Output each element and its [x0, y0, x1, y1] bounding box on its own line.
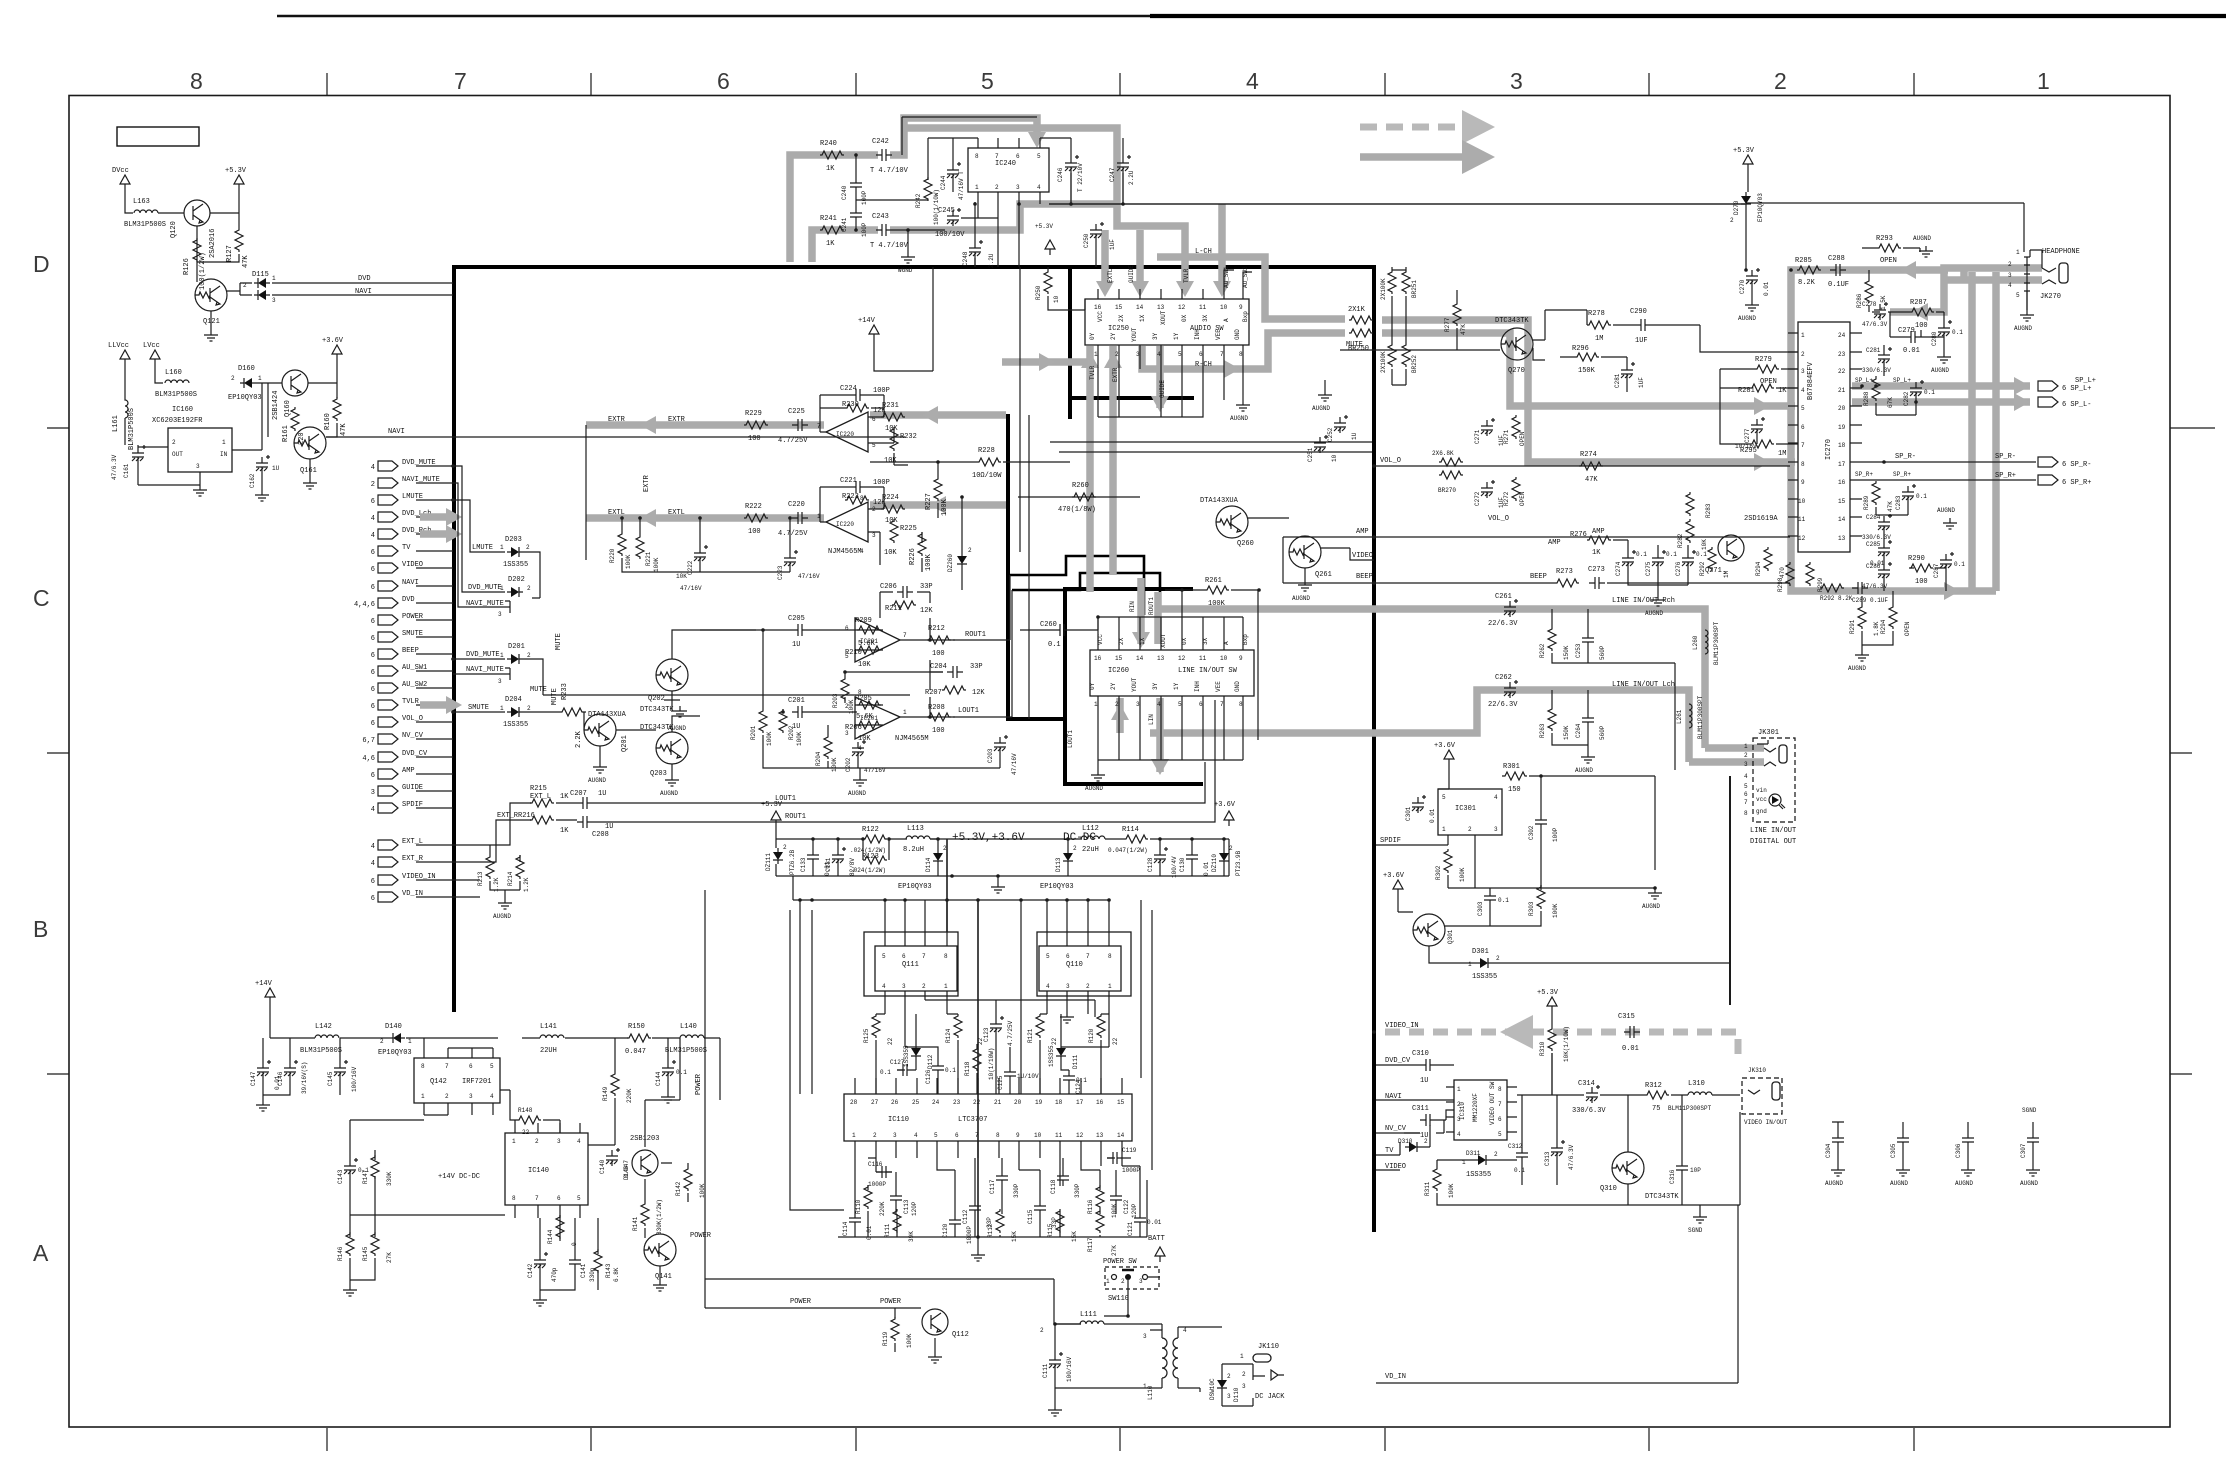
- transistor Q202: [656, 659, 688, 691]
- cap C223: [784, 550, 798, 568]
- svg-text:D311: D311: [1466, 1150, 1481, 1157]
- transistor Q161: [294, 427, 326, 459]
- svg-text:EP10QY03: EP10QY03: [1040, 883, 1074, 891]
- svg-text:1SS355: 1SS355: [1466, 1171, 1491, 1179]
- cap C205: [792, 624, 808, 636]
- IC260 bottom pins: [1098, 696, 1243, 760]
- svg-text:LINE IN/OUT SW: LINE IN/OUT SW: [1178, 667, 1238, 675]
- power +3.6V Q301: [1393, 880, 1403, 895]
- cap C301: [1412, 795, 1426, 813]
- svg-text:16: 16: [1838, 479, 1846, 486]
- svg-text:C147: C147: [250, 1071, 257, 1086]
- svg-text:C133: C133: [800, 857, 807, 872]
- svg-text:+14V: +14V: [255, 980, 273, 988]
- caps C304..C307 row: [1832, 1132, 1844, 1148]
- resistor R213: [486, 855, 494, 879]
- svg-text:2X1K: 2X1K: [1348, 306, 1366, 314]
- svg-text:24: 24: [932, 1099, 940, 1106]
- resistor R216: [530, 816, 554, 824]
- connector BEEP: [378, 649, 398, 659]
- opamp IC201 upper: [855, 618, 900, 662]
- caps C274 C275 C276: [1622, 550, 1636, 568]
- svg-text:D301: D301: [1472, 948, 1489, 956]
- svg-text:6: 6: [371, 566, 375, 574]
- ground below Q121: [204, 330, 218, 341]
- wire R228 line: [870, 461, 1070, 463]
- svg-text:18: 18: [1055, 1099, 1063, 1106]
- wire +14V rail: [270, 1003, 680, 1100]
- resistor R145: [371, 1232, 379, 1256]
- resistor R111: [893, 1209, 901, 1233]
- svg-text:100/4V: 100/4V: [1171, 856, 1178, 878]
- wire MUTE bus: [523, 659, 910, 695]
- svg-text:4: 4: [1744, 773, 1748, 780]
- svg-text:R143: R143: [605, 1263, 612, 1278]
- IC260 top pins: [1098, 617, 1243, 650]
- svg-text:DTC343TK: DTC343TK: [640, 724, 674, 732]
- svg-text:AUGND: AUGND: [660, 790, 678, 797]
- wire R213 R214 gnd: [490, 845, 520, 898]
- svg-text:1: 1: [500, 544, 504, 551]
- wire bottom rail ic201: [700, 630, 1000, 768]
- svg-text:100: 100: [1915, 578, 1928, 586]
- IC270 left pins: [1788, 333, 1798, 536]
- svg-text:vin: vin: [1756, 787, 1767, 794]
- svg-text:Q111: Q111: [902, 961, 919, 969]
- ground jack: [2026, 291, 2028, 310]
- resistor R160: [333, 397, 341, 421]
- svg-text:RIN: RIN: [1129, 601, 1136, 612]
- gray route L-CH through 2X1K to amp: [1382, 320, 1795, 462]
- svg-text:R296: R296: [1572, 345, 1589, 353]
- svg-text:1: 1: [852, 1132, 856, 1139]
- svg-text:IC160: IC160: [172, 406, 193, 414]
- svg-text:Q141: Q141: [655, 1273, 672, 1281]
- svg-text:+3.6V: +3.6V: [1383, 872, 1405, 880]
- svg-text:100K: 100K: [766, 731, 773, 746]
- JK301 barrel: [1779, 745, 1787, 763]
- diode D140: [389, 1033, 405, 1043]
- svg-text:1: 1: [1106, 1278, 1110, 1285]
- diode D270: [1741, 192, 1751, 208]
- svg-text:2: 2: [527, 585, 531, 592]
- svg-text:9: 9: [1239, 655, 1243, 662]
- svg-text:IC110: IC110: [888, 1116, 909, 1124]
- wire NAVI to divider: [272, 294, 453, 296]
- transistor Q112: [922, 1309, 948, 1335]
- svg-text:C304: C304: [1825, 1143, 1832, 1158]
- resistor R141: [641, 1202, 649, 1226]
- wire C240/C241: [856, 155, 928, 230]
- svg-text:R150: R150: [628, 1023, 645, 1031]
- svg-text:Q161: Q161: [300, 467, 317, 475]
- cap C240: [850, 177, 862, 193]
- diode D112: [911, 1044, 921, 1060]
- resistor R311: [1433, 1167, 1441, 1191]
- svg-text:Q261: Q261: [1315, 571, 1332, 579]
- svg-text:5: 5: [934, 1132, 938, 1139]
- svg-text:1: 1: [1457, 1086, 1461, 1093]
- top title bar line: [277, 15, 1150, 17]
- svg-text:Q201: Q201: [621, 735, 629, 752]
- IC301 box: [1438, 789, 1502, 835]
- cap C140: [606, 1148, 620, 1166]
- svg-text:6: 6: [1498, 1116, 1502, 1123]
- IC240 box: [968, 148, 1049, 192]
- svg-text:DZ260: DZ260: [947, 554, 954, 572]
- svg-text:+5.3V: +5.3V: [1733, 147, 1755, 155]
- svg-text:R311: R311: [1424, 1181, 1431, 1196]
- svg-text:7: 7: [1086, 953, 1090, 960]
- svg-text:6: 6: [371, 895, 375, 903]
- svg-text:C142: C142: [527, 1263, 534, 1278]
- svg-text:24: 24: [1838, 332, 1846, 339]
- svg-text:0Y: 0Y: [1089, 332, 1096, 340]
- wire R250 link: [1084, 299, 1086, 310]
- cap C279: [1905, 331, 1921, 343]
- resistor R119: [891, 1317, 899, 1341]
- svg-text:8: 8: [421, 1063, 425, 1070]
- svg-text:14: 14: [1136, 304, 1144, 311]
- svg-text:4: 4: [1457, 1131, 1461, 1138]
- transistor Q270: [1501, 328, 1533, 360]
- svg-text:C312: C312: [1508, 1143, 1523, 1150]
- svg-text:6: 6: [1801, 424, 1805, 431]
- svg-text:15K: 15K: [1011, 1231, 1018, 1242]
- wire VIDEO_IN VD_IN stubs: [470, 880, 480, 897]
- diode D203: [507, 547, 523, 557]
- svg-text:2: 2: [783, 844, 787, 851]
- cap C284: [1878, 514, 1892, 532]
- svg-text:GUIDE: GUIDE: [1159, 380, 1166, 398]
- power flag LVcc: [150, 350, 160, 365]
- svg-text:15: 15: [1115, 304, 1123, 311]
- svg-text:LINE IN/OUT: LINE IN/OUT: [1750, 827, 1796, 835]
- svg-text:D110: D110: [1233, 1387, 1240, 1402]
- svg-text:R209: R209: [855, 617, 872, 625]
- svg-text:R299: R299: [1817, 577, 1824, 592]
- svg-text:C126: C126: [925, 1069, 932, 1084]
- svg-text:22: 22: [887, 1037, 894, 1045]
- svg-text:8: 8: [1498, 1086, 1502, 1093]
- svg-text:+5.3V: +5.3V: [761, 801, 783, 809]
- svg-text:10K: 10K: [1701, 539, 1708, 550]
- resistor R250: [1044, 270, 1052, 294]
- svg-text:3: 3: [2008, 272, 2012, 279]
- svg-text:BEEP: BEEP: [1530, 573, 1547, 581]
- svg-text:2: 2: [1227, 1373, 1231, 1380]
- svg-text:HEADPHONE: HEADPHONE: [2042, 248, 2080, 256]
- resistor R222: [744, 514, 768, 522]
- wire top rail line sw: [1098, 616, 1243, 618]
- cap C303: [1484, 890, 1496, 906]
- diode D311: [1474, 1155, 1490, 1165]
- svg-text:470p: 470p: [551, 1267, 558, 1282]
- svg-text:3: 3: [902, 983, 906, 990]
- svg-text:47K: 47K: [1585, 476, 1598, 484]
- svg-text:C305: C305: [1890, 1143, 1897, 1158]
- wire C250 bottom: [1095, 240, 1097, 267]
- svg-text:0.1: 0.1: [1916, 493, 1927, 500]
- svg-text:1M: 1M: [1595, 335, 1603, 343]
- svg-text:R161: R161: [282, 425, 290, 442]
- dual diode D115: [254, 278, 270, 288]
- cap C290: [1635, 319, 1651, 331]
- svg-text:PTZ6.2B: PTZ6.2B: [789, 849, 796, 875]
- svg-text:6: 6: [371, 878, 375, 886]
- cap C282: [1910, 380, 1924, 398]
- svg-text:DTC343TK: DTC343TK: [640, 706, 674, 714]
- resistor R122: [863, 835, 887, 843]
- resistor R285: [1797, 266, 1821, 274]
- IC140 box: [505, 1133, 588, 1205]
- resistor R290: [1909, 564, 1933, 572]
- power flag DVcc: [120, 175, 130, 190]
- IC250 bottom pins: [1098, 345, 1243, 417]
- svg-text:100K: 100K: [653, 557, 660, 572]
- svg-text:C315: C315: [1618, 1013, 1635, 1021]
- cap C161: [132, 445, 146, 463]
- wire cluster mid: [876, 1000, 1109, 1094]
- svg-text:NAVI: NAVI: [355, 288, 372, 296]
- svg-text:C162: C162: [249, 473, 256, 488]
- MUTE label wire: [1340, 349, 1500, 351]
- svg-text:+5.3V: +5.3V: [1035, 223, 1053, 230]
- wire R233 to Q201: [584, 712, 586, 730]
- svg-text:6: 6: [371, 498, 375, 506]
- svg-text:1SS355: 1SS355: [1472, 973, 1497, 981]
- svg-text:2: 2: [1801, 351, 1805, 358]
- gray into JK301 pin2: [1705, 744, 1764, 752]
- svg-text:1: 1: [500, 585, 504, 592]
- cap C242: [876, 149, 892, 161]
- svg-text:22: 22: [1051, 1037, 1058, 1045]
- svg-text:R223: R223: [842, 493, 859, 501]
- svg-text:47/6.3V: 47/6.3V: [1568, 1144, 1575, 1170]
- wire DVD to divider: [272, 282, 453, 284]
- svg-text:2Y: 2Y: [1110, 682, 1117, 690]
- inductor L141: [540, 1035, 564, 1038]
- inductor L142: [315, 1035, 339, 1038]
- resistor R287: [1910, 308, 1934, 316]
- svg-text:0.047: 0.047: [625, 1048, 646, 1056]
- svg-text:AMP: AMP: [402, 767, 415, 775]
- svg-text:1X: 1X: [1139, 637, 1146, 645]
- gray SP_L+ line: [1852, 382, 2030, 390]
- svg-text:C203: C203: [987, 748, 994, 763]
- wire LMUTE to D203: [453, 500, 505, 552]
- svg-text:1: 1: [421, 1093, 425, 1100]
- svg-text:LOUT1: LOUT1: [958, 707, 979, 715]
- svg-text:0.1: 0.1: [1666, 551, 1677, 558]
- svg-text:5: 5: [1178, 351, 1182, 358]
- resistor R293 OPEN: [1877, 244, 1901, 252]
- svg-text:1000P: 1000P: [966, 1226, 973, 1244]
- svg-text:4: 4: [1037, 184, 1041, 191]
- svg-text:0.01: 0.01: [1622, 1045, 1639, 1053]
- svg-text:D115: D115: [252, 271, 269, 279]
- svg-text:C274: C274: [1615, 561, 1622, 576]
- power +5.3V top: [1743, 155, 1753, 170]
- svg-text:L141: L141: [540, 1023, 557, 1031]
- svg-text:1Y: 1Y: [1173, 682, 1180, 690]
- svg-text:3: 3: [1139, 1278, 1143, 1285]
- svg-text:BLM11P300SPT: BLM11P300SPT: [1697, 695, 1704, 739]
- svg-text:3: 3: [845, 730, 849, 737]
- svg-text:7: 7: [1220, 351, 1224, 358]
- svg-text:R124: R124: [945, 1028, 952, 1043]
- transistor Q310: [1612, 1152, 1644, 1184]
- svg-text:1U: 1U: [605, 823, 613, 831]
- svg-text:R145: R145: [362, 1246, 369, 1261]
- svg-text:1K: 1K: [560, 827, 569, 835]
- resistor R224: [881, 505, 905, 513]
- svg-text:R276: R276: [1570, 531, 1587, 539]
- svg-text:T 4.7/10V: T 4.7/10V: [870, 167, 909, 175]
- svg-text:R204: R204: [815, 751, 822, 766]
- wire AMP long: [1283, 536, 1790, 538]
- svg-text:17: 17: [1838, 461, 1846, 468]
- diode D160: [240, 378, 256, 388]
- inductor L113: [906, 836, 930, 839]
- svg-text:100: 100: [932, 727, 945, 735]
- svg-text:6: 6: [371, 549, 375, 557]
- resistor R296: [1575, 353, 1599, 361]
- feedback resistor R223: [845, 496, 869, 504]
- svg-text:C279: C279: [1898, 327, 1915, 335]
- cap C241: [850, 207, 862, 223]
- svg-text:R260: R260: [1072, 482, 1089, 490]
- svg-text:JK301: JK301: [1758, 729, 1779, 737]
- svg-text:PT23.9B: PT23.9B: [1235, 850, 1242, 876]
- svg-text:C264: C264: [1575, 723, 1582, 738]
- svg-text:R203: R203: [832, 693, 839, 708]
- wire R310: [1551, 1012, 1553, 1095]
- svg-text:C248: C248: [962, 251, 969, 266]
- IC310 box: [1454, 1080, 1507, 1140]
- svg-text:1: 1: [1240, 1353, 1244, 1360]
- wire caps gnd: [263, 1038, 340, 1100]
- svg-text:IC220: IC220: [836, 521, 854, 528]
- wire C246 C247: [1040, 138, 1123, 204]
- svg-text:R119: R119: [882, 1331, 889, 1346]
- svg-text:POWER: POWER: [880, 1298, 902, 1306]
- svg-text:IC301: IC301: [1455, 805, 1476, 813]
- svg-text:6 SP_L+: 6 SP_L+: [2062, 385, 2091, 393]
- svg-text:R125: R125: [863, 1028, 870, 1043]
- gray LIN line: [870, 501, 1006, 509]
- svg-text:13: 13: [1096, 1132, 1104, 1139]
- resistor R209: [857, 626, 881, 634]
- resistor R110: [864, 1185, 872, 1209]
- wire video inputs: [1376, 1065, 1454, 1170]
- resistor R228: [977, 458, 1001, 466]
- svg-text:4: 4: [371, 843, 375, 851]
- svg-text:TVLR: TVLR: [1183, 268, 1190, 283]
- svg-text:3: 3: [1801, 368, 1805, 375]
- svg-text:AUGND: AUGND: [1645, 610, 1663, 617]
- svg-text:BR252: BR252: [1411, 355, 1418, 373]
- svg-text:1Y: 1Y: [1173, 332, 1180, 340]
- wire ic310 inputs: [1404, 1065, 1454, 1147]
- svg-text:XOUT: XOUT: [1160, 633, 1167, 648]
- connector flag SP_R-: [2038, 457, 2058, 467]
- svg-text:IC260: IC260: [1108, 667, 1129, 675]
- svg-text:C145: C145: [327, 1071, 334, 1086]
- svg-text:B67884EFV: B67884EFV: [1807, 361, 1815, 400]
- diode D301: [1476, 958, 1492, 968]
- svg-text:2: 2: [1457, 1101, 1461, 1108]
- svg-text:+3.6V: +3.6V: [1214, 801, 1236, 809]
- transistor Q141: [644, 1234, 676, 1266]
- svg-text:Q202: Q202: [648, 695, 665, 703]
- wire stair rout1 to sw: [1010, 556, 1144, 615]
- svg-text:VIDEO: VIDEO: [1352, 552, 1373, 560]
- svg-text:AUGND: AUGND: [848, 790, 866, 797]
- svg-text:D113: D113: [1055, 857, 1062, 872]
- cap C243: [876, 224, 892, 236]
- svg-text:100/16V: 100/16V: [351, 1066, 358, 1092]
- svg-text:11: 11: [1055, 1132, 1063, 1139]
- gray route C243 to audio sw: [890, 204, 1117, 230]
- svg-text:6: 6: [371, 720, 375, 728]
- IC110 box: [844, 1094, 1132, 1141]
- connector TVLR: [378, 700, 398, 710]
- wire BR251 BR252: [1392, 267, 1406, 385]
- wire right cluster joins: [1869, 270, 1946, 591]
- svg-text:DC JACK: DC JACK: [1255, 1393, 1285, 1401]
- svg-text:0.1: 0.1: [1514, 1167, 1525, 1174]
- svg-text:0.01: 0.01: [1203, 861, 1210, 876]
- svg-text:WGND: WGND: [898, 267, 913, 274]
- cap C145: [334, 1060, 348, 1078]
- IC240 pins bottom: [978, 192, 1040, 202]
- svg-text:VEE: VEE: [1215, 681, 1222, 692]
- wire IC240 pin2 stub down: [997, 230, 999, 267]
- svg-text:2: 2: [1115, 351, 1119, 358]
- resistor R303: [1537, 885, 1545, 909]
- wire NAVI_MUTE to D202: [453, 483, 510, 613]
- power +3.6V IC301: [1444, 750, 1454, 765]
- svg-text:R273: R273: [1556, 568, 1573, 576]
- svg-text:100/10V: 100/10V: [935, 231, 965, 239]
- svg-text:0.1: 0.1: [1952, 329, 1963, 336]
- wire C302: [1448, 776, 1655, 888]
- resistor R207: [942, 686, 966, 694]
- svg-text:+5.3V: +5.3V: [1537, 989, 1559, 997]
- connector flag SP_R+: [2038, 475, 2058, 485]
- svg-text:1K: 1K: [560, 793, 569, 801]
- svg-text:2SB1424: 2SB1424: [272, 391, 280, 420]
- svg-text:470: 470: [1779, 567, 1786, 578]
- svg-text:R261: R261: [1205, 577, 1222, 585]
- wire Q203 collector: [616, 716, 700, 732]
- svg-text:3Y: 3Y: [1152, 682, 1159, 690]
- svg-text:AUGND: AUGND: [2020, 1180, 2038, 1187]
- svg-text:DZ111: DZ111: [765, 853, 772, 871]
- svg-text:R278: R278: [1588, 310, 1605, 318]
- svg-text:R160: R160: [324, 413, 332, 430]
- resistor 2X100K BR251 pair: [1388, 270, 1396, 294]
- gray route top loop down to IC250: [904, 128, 1185, 290]
- diode D113: [1063, 849, 1073, 865]
- Q110 box: [1039, 946, 1121, 991]
- wire LVcc to L160: [155, 365, 163, 383]
- svg-text:R294: R294: [1880, 619, 1887, 634]
- svg-text:Q270: Q270: [1508, 367, 1525, 375]
- svg-text:4: 4: [1183, 1327, 1187, 1334]
- svg-text:2: 2: [1229, 845, 1233, 852]
